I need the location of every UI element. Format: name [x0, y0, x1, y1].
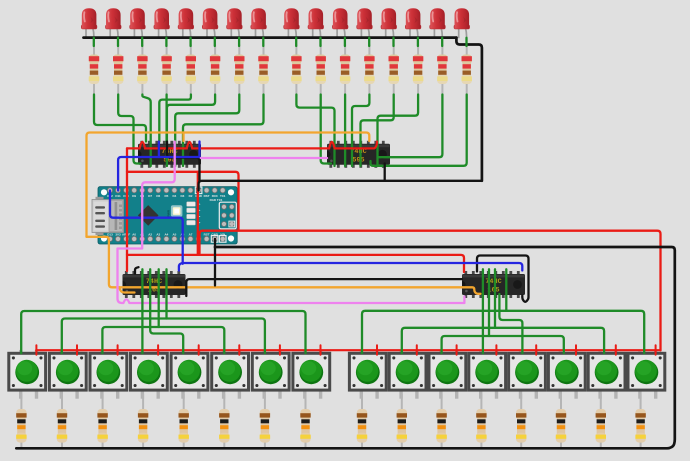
resistor R14 220ohm	[413, 45, 423, 95]
pushbutton SW13	[509, 350, 546, 399]
svg-text:3V3: 3V3	[115, 232, 121, 236]
LED4 (red)	[154, 8, 170, 38]
svg-text:74HC: 74HC	[485, 278, 501, 286]
wire data U3-U4 black	[186, 279, 462, 296]
resistor R9 220ohm	[291, 45, 301, 95]
pushbutton SW15	[588, 350, 625, 399]
LED7 (red)	[226, 8, 242, 38]
pushbutton SW10	[389, 350, 426, 399]
wire latch stub U1 orange	[182, 133, 184, 142]
resistor R24 10kohm	[300, 394, 310, 449]
resistor R13 220ohm	[389, 45, 399, 95]
wire clock stub U1b blue	[198, 142, 200, 158]
resistor R26 10kohm	[397, 394, 407, 449]
wire R13-U2	[361, 95, 394, 167]
wire 5V upper rail red	[200, 231, 661, 351]
wire U3 stub b6	[158, 269, 160, 327]
LED6 (red)	[202, 8, 218, 38]
wire R2-U1	[118, 95, 140, 164]
LED1 (red)	[81, 8, 97, 38]
pushbutton SW3	[90, 350, 127, 399]
wire R16-U2	[371, 95, 467, 166]
LED8 (red)	[251, 8, 267, 38]
resistor R32 10kohm	[635, 394, 645, 449]
shift register U3 74HC165	[123, 271, 186, 298]
resistor R22 10kohm	[219, 394, 229, 449]
wire SW15 vcc stub red	[615, 345, 617, 355]
wire SW8 vcc stub red	[320, 345, 322, 355]
wire LED3 anode stub	[141, 38, 143, 46]
resistor R8 220ohm	[258, 45, 268, 95]
pushbutton SW2	[49, 350, 86, 399]
LED2 (red)	[105, 8, 121, 38]
LED12 (red)	[356, 8, 372, 38]
svg-text:595: 595	[352, 156, 364, 164]
wire SW13 vcc stub red	[535, 345, 537, 355]
wire R10-U2	[321, 95, 331, 164]
svg-text:A0: A0	[132, 232, 136, 236]
resistor R6 220ohm	[210, 45, 220, 95]
svg-text:D9: D9	[132, 194, 136, 198]
svg-text:A4: A4	[164, 232, 168, 236]
wire SW3 vcc stub red	[117, 345, 119, 355]
resistor R2 220ohm	[113, 45, 123, 95]
wire clock stub U1a blue	[158, 142, 160, 158]
resistor R1 220ohm	[89, 45, 99, 95]
wire R15-U2	[379, 95, 443, 158]
svg-text:D7: D7	[148, 194, 152, 198]
wire SW9-SW16 arc	[362, 311, 644, 353]
pushbutton SW4	[131, 350, 168, 399]
wire GND U1 black	[167, 142, 200, 181]
pushbutton SW8	[293, 350, 330, 399]
svg-text:A7: A7	[189, 232, 193, 236]
wire LED4 anode stub	[165, 38, 167, 46]
wire SW2 vcc stub red	[76, 345, 78, 355]
LED10 (red)	[308, 8, 324, 38]
wire R11-U2	[344, 95, 346, 167]
wire LED10 anode stub	[319, 38, 321, 46]
wire SW7 vcc stub red	[279, 345, 281, 355]
resistor R29 10kohm	[516, 394, 526, 449]
shift register U2 74HC595	[327, 141, 390, 168]
pushbutton SW16	[628, 350, 665, 399]
svg-text:D3: D3	[180, 194, 184, 198]
LED3 (red)	[129, 8, 145, 38]
wire 5V left drop red	[126, 148, 128, 271]
svg-text:A3: A3	[156, 232, 160, 236]
wire SW1 vcc stub red	[35, 345, 37, 355]
wire LED8 anode stub	[262, 38, 264, 46]
wire SW10-SW15 arc	[402, 328, 604, 353]
wire SW5 drop	[150, 269, 183, 353]
wire LED7 anode stub	[238, 38, 240, 46]
wire data nano-U3 pink	[118, 191, 465, 304]
wire LED12 anode stub	[368, 38, 370, 46]
resistor R18 10kohm	[57, 394, 67, 449]
wire R9-U2	[296, 95, 334, 167]
wire 5V mid rail red	[127, 172, 239, 230]
wire SW12 vcc stub red	[495, 345, 497, 355]
wire SW16 vcc stub red	[655, 345, 657, 355]
svg-text:GND: GND	[211, 232, 219, 236]
wire U4 stub b15	[494, 269, 496, 328]
wire R6-U1	[167, 95, 215, 167]
wire U4 stub b16	[505, 269, 507, 311]
wire R5-U1	[159, 95, 191, 142]
wire SW2-SW7 arc	[62, 319, 265, 354]
wire clock nano-U3 blue	[110, 191, 183, 264]
wire LED13 anode stub	[392, 38, 394, 46]
wire stub U3 pin black	[135, 267, 139, 273]
wire U4 loop black	[477, 256, 529, 302]
resistor R7 220ohm	[234, 45, 244, 95]
LED13 (red)	[381, 8, 397, 38]
resistor R4 220ohm	[161, 45, 171, 95]
resistor R15 220ohm	[437, 45, 447, 95]
wire R14-U2	[378, 95, 419, 167]
resistor R16 220ohm	[462, 45, 472, 95]
wire 5V U1-U2 red	[127, 142, 377, 149]
svg-text:GND: GND	[195, 194, 203, 198]
wire LED9 anode stub	[295, 38, 297, 46]
resistor R5 220ohm	[186, 45, 196, 95]
wire GND bottom rail black	[16, 247, 675, 448]
wire latch U1-U2 orange	[87, 133, 370, 237]
resistor R25 10kohm	[357, 394, 367, 449]
pushbutton SW12	[469, 350, 506, 399]
svg-text:D5: D5	[164, 194, 168, 198]
wire 5V rail red	[127, 255, 464, 272]
shift register U1 74HC595	[138, 141, 201, 168]
resistor R11 220ohm	[340, 45, 350, 95]
resistor R28 10kohm	[476, 394, 486, 449]
wire LED16 anode stub	[465, 38, 467, 46]
svg-text:A5: A5	[172, 232, 176, 236]
wire GND stub U2 black	[384, 164, 386, 181]
LED9 (red)	[283, 8, 299, 38]
resistor R27 10kohm	[436, 394, 446, 449]
wire 5V nano riser red	[197, 172, 199, 255]
wire SW11 vcc stub red	[456, 345, 458, 355]
wire SW4 vcc stub red	[157, 345, 159, 355]
resistor R10 220ohm	[316, 45, 326, 95]
resistor R17 10kohm	[16, 394, 26, 449]
wire clock nano-U1 blue	[118, 157, 199, 191]
wire LED11 anode stub	[344, 38, 346, 46]
pushbutton SW6	[212, 350, 249, 399]
LED5 (red)	[178, 8, 194, 38]
wire R1-U1	[94, 95, 146, 142]
wire LED2 anode stub	[117, 38, 119, 46]
wire R8-U1	[183, 95, 264, 167]
resistor R20 10kohm	[138, 394, 148, 449]
wire clock U3-U4 blue	[179, 263, 522, 271]
svg-text:D11: D11	[115, 194, 121, 198]
wire data nano-U1 pink	[142, 142, 175, 191]
LED11 (red)	[332, 8, 348, 38]
wire SW6 vcc stub red	[238, 345, 240, 355]
pushbutton SW5	[171, 350, 208, 399]
wire U3 stub b7	[165, 269, 167, 318]
wire SW9 vcc stub red	[376, 345, 378, 355]
resistor R21 10kohm	[179, 394, 189, 449]
wire GND nano drop black	[214, 239, 216, 286]
svg-text:D13: D13	[107, 232, 113, 236]
wire R4-U1	[165, 95, 167, 142]
pushbutton SW11	[429, 350, 466, 399]
svg-text:RAD TX1: RAD TX1	[210, 198, 223, 202]
wire SW3-SW6 arc	[102, 327, 224, 353]
wire SW4 drop	[141, 269, 143, 353]
resistor R30 10kohm	[556, 394, 566, 449]
wire SW5 vcc stub red	[198, 345, 200, 355]
resistor R12 220ohm	[364, 45, 374, 95]
wire SW12 drop	[482, 269, 484, 353]
svg-text:A2: A2	[148, 232, 152, 236]
wire LED15 anode stub	[441, 38, 443, 46]
resistor R31 10kohm	[596, 394, 606, 449]
wire SW10 vcc stub red	[416, 345, 418, 355]
svg-text:D4: D4	[172, 194, 176, 198]
wire GND rail mid black	[199, 181, 482, 191]
wire data U1-U2 pink	[201, 157, 327, 159]
svg-text:D6: D6	[156, 194, 160, 198]
wire GND bus right link	[456, 38, 482, 181]
wire U4 stub b14	[488, 269, 490, 336]
LED16 (red)	[454, 8, 470, 38]
wire LED14 anode stub	[417, 38, 419, 46]
wire R12-U2	[352, 95, 369, 167]
svg-text:VIN: VIN	[220, 232, 225, 236]
wire R3-U1	[142, 95, 150, 167]
wire SW1 arc	[21, 311, 305, 353]
wire latch stub U3 orange	[119, 287, 135, 292]
wire latch nano orange	[87, 237, 481, 294]
resistor R19 10kohm	[97, 394, 107, 449]
wire GND bus under LEDs	[84, 36, 457, 39]
wire SW13 wire	[499, 294, 522, 353]
wire SW14 vcc stub red	[575, 345, 577, 355]
pushbutton SW7	[252, 350, 289, 399]
pushbutton SW9	[349, 350, 386, 399]
wire LED1 anode stub	[93, 38, 95, 46]
shift register U4 74HC165	[462, 271, 525, 298]
pushbutton SW14	[548, 350, 585, 399]
Arduino Nano U5	[92, 187, 237, 244]
wire R7-U1	[175, 95, 239, 167]
LED14 (red)	[405, 8, 421, 38]
wire button 5V bus red	[36, 349, 660, 351]
wire SW11-SW14 arc	[442, 336, 564, 353]
svg-text:D2: D2	[189, 194, 193, 198]
pushbutton SW1	[9, 350, 46, 399]
resistor R3 220ohm	[137, 45, 147, 95]
svg-text:RST: RST	[204, 232, 210, 236]
svg-text:PWR: PWR	[167, 209, 171, 217]
resistor R23 10kohm	[260, 394, 270, 449]
wire LED6 anode stub	[214, 38, 216, 46]
wire LED5 anode stub	[189, 38, 191, 46]
LED15 (red)	[429, 8, 445, 38]
